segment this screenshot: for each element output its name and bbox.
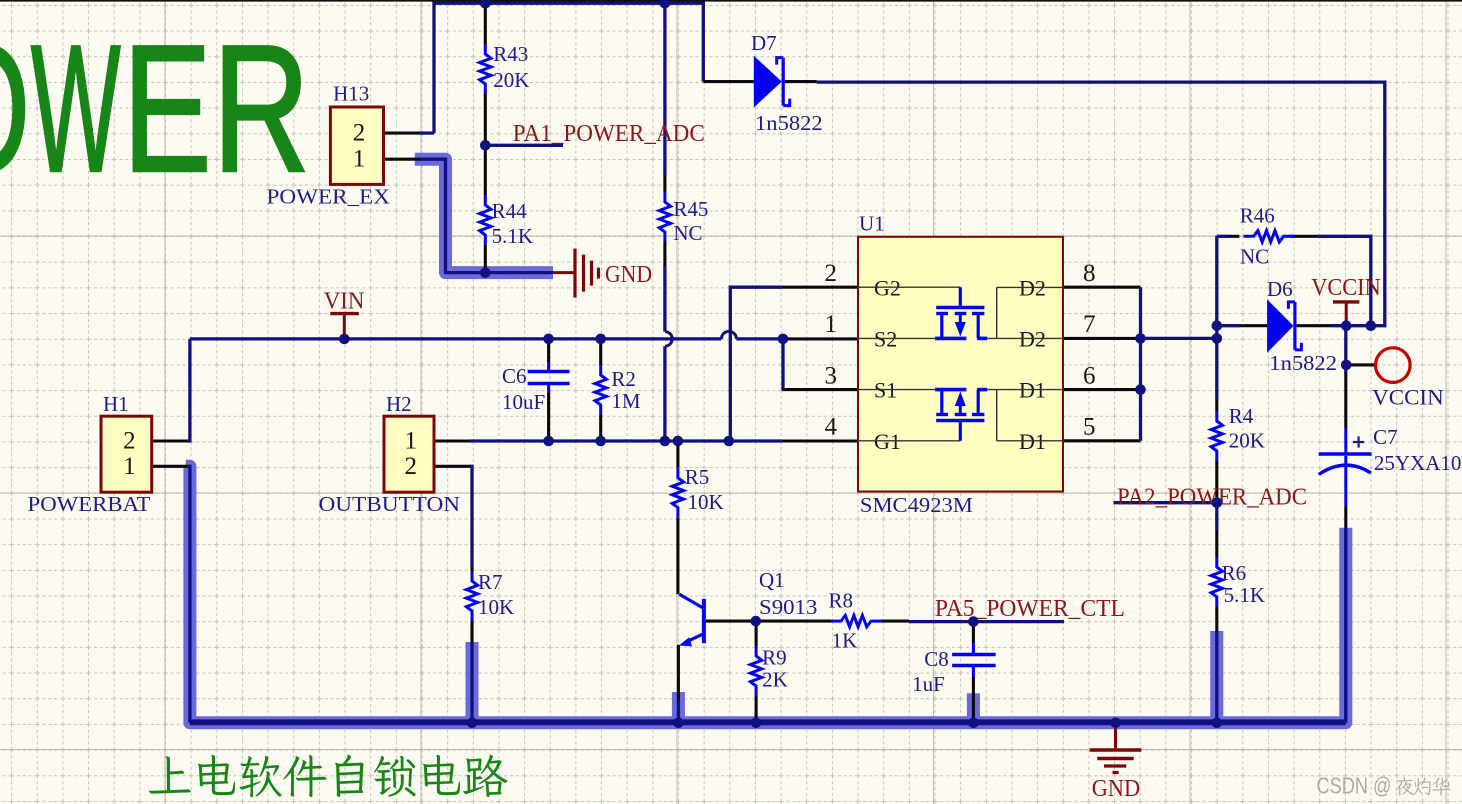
U1 internal thin connects bbox=[858, 286, 960, 288]
resistor R43 bbox=[480, 44, 491, 94]
highlighted wire H13 pin1 to GND bbox=[415, 159, 553, 272]
wire: H13 pin stubs bbox=[384, 132, 421, 135]
svg-text:R4: R4 bbox=[1229, 404, 1254, 428]
junction dots bbox=[480, 0, 491, 9]
wire: row7 to right column bbox=[1141, 337, 1217, 340]
resistor R44 bbox=[480, 195, 491, 245]
svg-text:CSDN @: CSDN @ bbox=[1317, 773, 1392, 799]
top border line bbox=[0, 0, 1462, 2]
wire: right pin bus vertical bbox=[1139, 287, 1142, 441]
svg-text:R9: R9 bbox=[762, 646, 787, 670]
svg-text:D1: D1 bbox=[1019, 429, 1046, 454]
svg-text:OUTBUTTON: OUTBUTTON bbox=[319, 492, 461, 516]
wire: C6 column stubs bbox=[547, 339, 550, 362]
resistor R5 bbox=[672, 468, 683, 518]
svg-text:1: 1 bbox=[123, 453, 136, 480]
svg-text:R8: R8 bbox=[829, 589, 854, 613]
resistor R9 bbox=[750, 646, 761, 696]
svg-text:10uF: 10uF bbox=[502, 390, 545, 414]
svg-text:1n5822: 1n5822 bbox=[755, 111, 823, 135]
svg-text:R2: R2 bbox=[611, 367, 636, 391]
connector H13 POWER_EX bbox=[330, 107, 383, 184]
wire: right column vertical bbox=[1215, 236, 1218, 400]
svg-text:R45: R45 bbox=[673, 197, 708, 221]
svg-text:R7: R7 bbox=[478, 570, 503, 594]
wire: U1 right pin stubs bbox=[1063, 286, 1141, 289]
wire: R46 loop bbox=[1217, 235, 1229, 238]
svg-text:25YXA100: 25YXA100 bbox=[1374, 451, 1462, 475]
svg-text:D7: D7 bbox=[751, 31, 777, 55]
wire: R5 column bbox=[676, 441, 679, 468]
wire: R45 column with hop over VIN row bbox=[663, 0, 666, 175]
svg-text:10K: 10K bbox=[478, 595, 514, 619]
svg-text:SMC4923M: SMC4923M bbox=[860, 493, 973, 517]
svg-text:G2: G2 bbox=[874, 276, 901, 301]
highlight spur R6 to bus bbox=[1210, 631, 1223, 723]
svg-text:VIN: VIN bbox=[324, 289, 365, 315]
svg-text:2K: 2K bbox=[762, 668, 788, 692]
wire: top right corner from D7 bbox=[817, 82, 1385, 326]
svg-text:1n5822: 1n5822 bbox=[1269, 351, 1337, 375]
wire: row to G1/H2 pin1 bbox=[470, 439, 782, 442]
connector H2 OUTBUTTON bbox=[384, 416, 434, 492]
svg-text:R5: R5 bbox=[685, 465, 710, 489]
highlight spur C8 to bus bbox=[967, 693, 980, 723]
resistor R45 bbox=[659, 192, 670, 242]
wire: G2 branch bbox=[730, 287, 781, 441]
svg-text:VCCIN: VCCIN bbox=[1372, 385, 1444, 410]
svg-text:S9013: S9013 bbox=[759, 595, 817, 619]
svg-text:5.1K: 5.1K bbox=[492, 224, 533, 248]
svg-text:R6: R6 bbox=[1222, 561, 1247, 585]
green Chinese title bbox=[149, 756, 191, 793]
ground symbol GND (bottom) bbox=[1114, 723, 1117, 748]
svg-text:2: 2 bbox=[825, 260, 838, 287]
wire: PA1 net label stub bbox=[485, 144, 563, 147]
svg-text:GND: GND bbox=[1092, 776, 1140, 802]
svg-text:R46: R46 bbox=[1240, 204, 1275, 228]
ground symbol GND (right of R44, rotated) bbox=[553, 271, 575, 274]
svg-text:R44: R44 bbox=[492, 199, 528, 223]
wire: PA2 net stub bbox=[1114, 501, 1217, 504]
wire: H2 pin stubs bbox=[434, 439, 470, 442]
highlighted net: ground bus bbox=[186, 466, 1346, 723]
U1 lower P-MOSFET (mirrored) bbox=[959, 422, 962, 441]
svg-text:1uF: 1uF bbox=[912, 672, 945, 696]
wire: H13 pin1 to GND (under highlight) bbox=[420, 159, 553, 272]
svg-text:Q1: Q1 bbox=[759, 568, 785, 592]
svg-text:2: 2 bbox=[353, 120, 366, 147]
svg-text:NC: NC bbox=[673, 221, 702, 245]
svg-text:7: 7 bbox=[1083, 311, 1096, 338]
port VCCIN circle bbox=[1376, 348, 1411, 383]
wire: H1 pin1 stub bbox=[152, 465, 187, 468]
wire: VCCIN column down to C7 bbox=[1344, 326, 1347, 373]
svg-text:PA2_POWER_ADC: PA2_POWER_ADC bbox=[1117, 485, 1307, 511]
svg-text:PA5_POWER_CTL: PA5_POWER_CTL bbox=[935, 596, 1125, 622]
diode D6 1n5822 bbox=[1267, 299, 1293, 353]
resistor R8 bbox=[831, 615, 881, 626]
wire: Q1 emitter to bus bbox=[677, 645, 680, 700]
svg-text:2: 2 bbox=[123, 428, 136, 455]
svg-text:1: 1 bbox=[353, 146, 366, 173]
highlight spur R7 to bus bbox=[466, 642, 479, 723]
svg-text:PA1_POWER_ADC: PA1_POWER_ADC bbox=[513, 121, 705, 147]
svg-text:G1: G1 bbox=[874, 429, 901, 454]
highlight spur Q1 emitter to bus bbox=[672, 692, 685, 723]
resistor R7 bbox=[466, 571, 477, 621]
svg-text:2: 2 bbox=[405, 453, 418, 480]
svg-text:3: 3 bbox=[825, 363, 838, 390]
svg-text:8: 8 bbox=[1083, 260, 1096, 287]
resistor R6 bbox=[1211, 557, 1222, 607]
svg-text:1: 1 bbox=[405, 428, 418, 455]
svg-text:R: R bbox=[213, 8, 310, 210]
IC U1 SMC4923M bbox=[858, 237, 1063, 492]
svg-text:6: 6 bbox=[1083, 363, 1096, 390]
svg-text:C6: C6 bbox=[502, 364, 527, 388]
green POWER title text bbox=[0, 7, 310, 210]
wire: VIN row bbox=[190, 337, 722, 340]
wire: VIN row left corner down to H1 pin2 bbox=[187, 339, 190, 441]
svg-text:U1: U1 bbox=[859, 212, 885, 236]
svg-text:NC: NC bbox=[1240, 245, 1269, 269]
svg-text:1: 1 bbox=[825, 311, 838, 338]
svg-text:5.1K: 5.1K bbox=[1224, 583, 1265, 607]
wire: U1 left pin stubs bbox=[782, 286, 858, 289]
wire: C8 column stubs bbox=[972, 622, 975, 643]
transistor Q1 S9013 bbox=[702, 599, 706, 643]
svg-text:H1: H1 bbox=[103, 392, 129, 416]
svg-text:5: 5 bbox=[1083, 414, 1096, 441]
svg-text:H2: H2 bbox=[386, 392, 412, 416]
wire: Q1 base row to R8 and PA5 bbox=[706, 620, 831, 623]
capacitor C8 bbox=[972, 643, 975, 655]
wire: C7 bottom to bus corner (under highlight) bbox=[1344, 506, 1347, 528]
svg-text:20K: 20K bbox=[1229, 429, 1265, 453]
wire: ground bus (under highlight) bbox=[187, 466, 1346, 721]
svg-text:O: O bbox=[0, 9, 30, 210]
resistor R4 bbox=[1211, 411, 1222, 461]
resistor R46 bbox=[1244, 231, 1294, 242]
connector H1 POWERBAT bbox=[101, 416, 152, 492]
svg-text:4: 4 bbox=[825, 414, 838, 441]
resistor R2 bbox=[595, 365, 606, 415]
wire: R9 column stubs bbox=[755, 621, 758, 646]
wire: H13 pin2 up and across top bbox=[434, 3, 703, 133]
svg-text:E: E bbox=[123, 7, 212, 210]
svg-text:H13: H13 bbox=[333, 82, 369, 106]
diode D7 1n5822 bbox=[754, 56, 782, 108]
svg-text:10K: 10K bbox=[688, 490, 724, 514]
svg-text:D6: D6 bbox=[1267, 277, 1293, 301]
wire: H2 pin2 down through R7 to bus bbox=[470, 466, 472, 568]
svg-text:POWER_EX: POWER_EX bbox=[267, 185, 391, 209]
svg-text:C8: C8 bbox=[924, 647, 949, 671]
svg-text:C7: C7 bbox=[1373, 425, 1398, 449]
wire: R43/R44 column stubs bbox=[484, 3, 487, 44]
svg-text:R43: R43 bbox=[493, 42, 528, 66]
svg-text:POWERBAT: POWERBAT bbox=[28, 492, 151, 516]
capacitor C6 bbox=[547, 362, 550, 372]
svg-text:1K: 1K bbox=[832, 629, 858, 653]
svg-text:1M: 1M bbox=[611, 389, 641, 413]
wire: D6 row bbox=[1217, 324, 1240, 327]
svg-text:GND: GND bbox=[605, 262, 652, 288]
svg-text:VCCIN: VCCIN bbox=[1311, 275, 1381, 301]
svg-text:W: W bbox=[31, 7, 121, 210]
U1 upper P-MOSFET bbox=[959, 287, 962, 306]
wire: port VCCIN stub bbox=[1346, 363, 1375, 366]
wire: branch to S1 pin bbox=[781, 339, 784, 390]
wire: R2 column stubs bbox=[599, 339, 602, 365]
svg-text:20K: 20K bbox=[493, 68, 529, 92]
capacitor C7 (polarized) bbox=[1344, 428, 1347, 453]
